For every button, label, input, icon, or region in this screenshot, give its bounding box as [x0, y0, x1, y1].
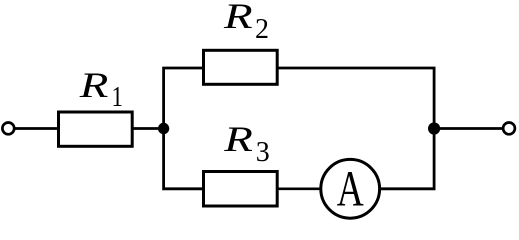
label R_1: [79, 66, 123, 112]
svg-text:R: R: [79, 66, 109, 106]
svg-text:R: R: [223, 0, 253, 37]
node B (right junction dot): [428, 122, 440, 134]
label R_3: [223, 120, 270, 168]
wire (R1 to node A): [132, 127, 163, 130]
svg-text:A: A: [337, 160, 364, 217]
ammeter A1: [321, 159, 380, 218]
wire (left terminal to R1): [14, 127, 58, 130]
wire (node A down to bottom branch and right to R3): [164, 129, 204, 189]
wire (left vertical, node A up to top branch and right to R2): [164, 68, 204, 129]
wire (node B to right terminal): [434, 127, 503, 130]
svg-text:R: R: [223, 120, 253, 160]
terminal T2 (right output, open circle): [503, 122, 515, 134]
resistor R2: [204, 50, 278, 84]
node A (left junction dot): [158, 123, 169, 134]
svg-text:2: 2: [255, 14, 269, 45]
label R_2: [223, 0, 269, 45]
svg-text:1: 1: [112, 81, 123, 113]
resistor R3: [204, 172, 278, 207]
terminal T1 (left input, open circle): [2, 122, 14, 134]
wire (ammeter to right vertical, up to node B): [379, 129, 434, 189]
resistor R1: [59, 112, 133, 146]
wire (R2 to right vertical, down to node B): [277, 68, 434, 129]
svg-text:3: 3: [256, 137, 270, 168]
wire (R3 to ammeter): [277, 187, 322, 190]
